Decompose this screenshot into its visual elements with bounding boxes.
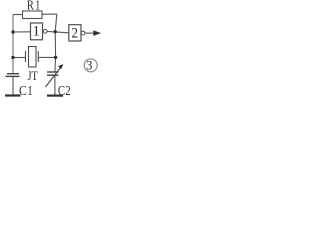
wire feedback vertical — [55, 14, 57, 72]
ground (C2) — [47, 94, 63, 96]
capacitor C1 — [6, 74, 20, 77]
inverter U1 box — [31, 23, 43, 40]
figure number 3 (circled) — [84, 59, 97, 72]
inverter bubble stage 1 — [43, 29, 47, 33]
svg-text:C: C — [58, 84, 65, 99]
inverter U2 box — [69, 25, 81, 41]
wire C2 lower lead — [54, 75, 56, 95]
svg-text:2: 2 — [65, 84, 70, 99]
capacitor C2 (variable) — [47, 72, 59, 75]
crystal JT — [26, 47, 39, 68]
wire crystal right — [38, 56, 55, 58]
svg-text:1: 1 — [27, 84, 32, 99]
wire gate1 output to gate2 input — [47, 31, 69, 32]
wire gate1 input — [13, 31, 31, 33]
wire crystal left — [13, 57, 26, 59]
wire top-left horizontal — [13, 14, 23, 16]
svg-text:2: 2 — [72, 25, 79, 41]
ground (C1) — [5, 94, 21, 96]
svg-text:1: 1 — [32, 24, 40, 40]
node junction gate1 input — [11, 30, 14, 33]
svg-text:JT: JT — [28, 69, 39, 83]
wire output lead — [85, 32, 94, 34]
wire left rail vertical — [12, 15, 14, 74]
svg-text:3: 3 — [86, 59, 92, 73]
svg-text:R: R — [27, 0, 34, 13]
output arrow — [93, 30, 101, 36]
svg-text:1: 1 — [35, 0, 40, 13]
node junction crystal right — [54, 56, 57, 59]
variable arrow C2 — [46, 67, 62, 87]
resistor R1 — [23, 11, 43, 19]
svg-text:C: C — [19, 84, 27, 99]
node junction crystal left — [11, 56, 14, 59]
wire resistor right lead — [42, 13, 57, 15]
inverter bubble stage 2 — [81, 31, 85, 35]
wire C1 lower lead — [12, 76, 14, 94]
node junction feedback top — [54, 30, 57, 33]
